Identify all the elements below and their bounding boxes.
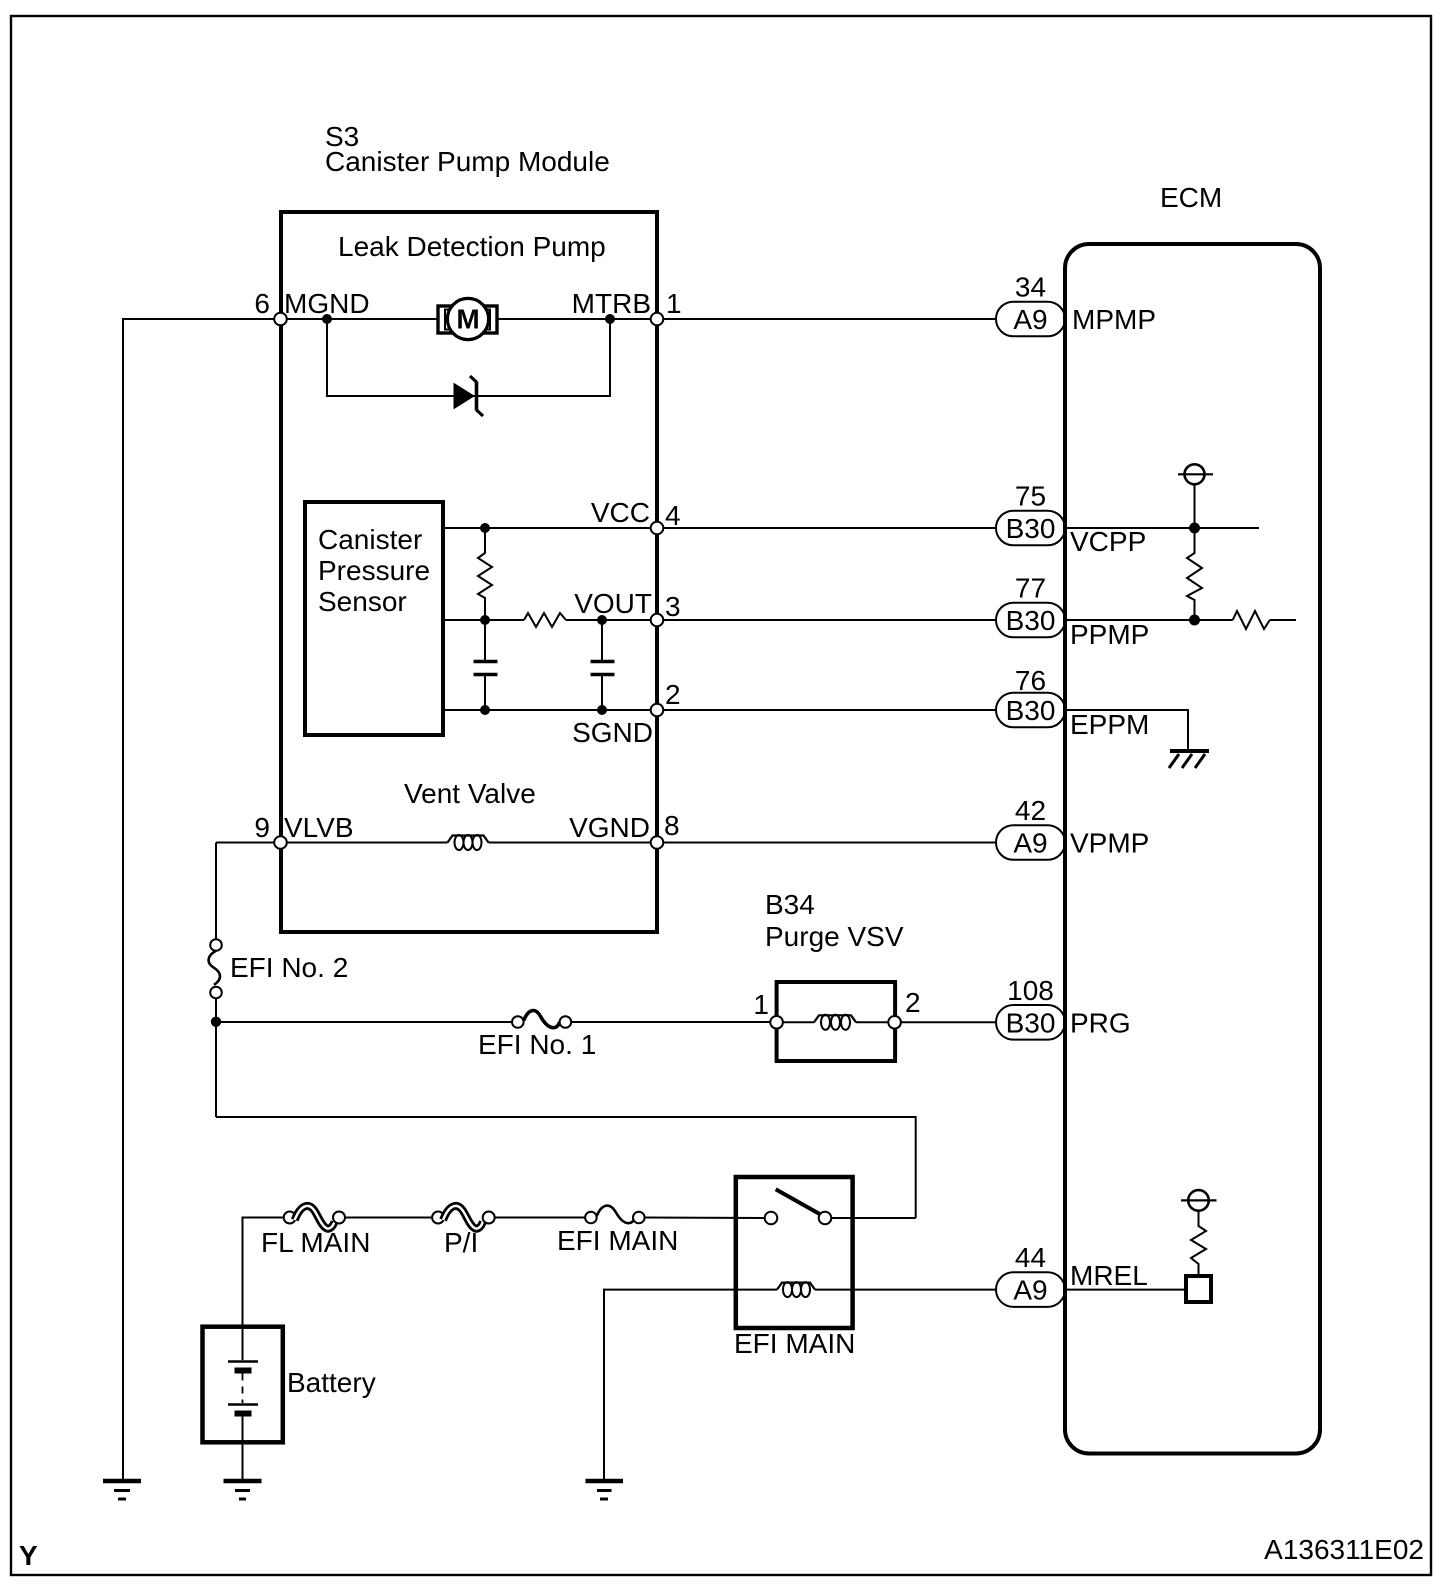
svg-text:34: 34 (1015, 272, 1046, 303)
wire battery to FL MAIN (243, 1218, 284, 1327)
svg-text:MTRB: MTRB (572, 288, 651, 319)
inductor L2 purge VSV coil (782, 1015, 889, 1030)
connector 77 B30 PPMP (996, 573, 1149, 651)
svg-text:P/I: P/I (444, 1227, 478, 1258)
wire EFI No.1 branch (216, 1021, 512, 1023)
svg-text:2: 2 (905, 987, 921, 1018)
svg-text:MPMP: MPMP (1072, 304, 1156, 335)
fusible link FL MAIN (261, 1206, 370, 1258)
connector 34 A9 MPMP (996, 272, 1156, 337)
wire VGND to ECM VPMP (489, 842, 997, 844)
ground (battery) (224, 1481, 262, 1499)
node junction MGND (322, 314, 332, 324)
pin 2 purge VSV (888, 987, 920, 1029)
node junction VCPP (1189, 523, 1200, 534)
wire SGND to ECM EPPM (443, 709, 996, 711)
node junction EFI No.2 (211, 1017, 221, 1027)
svg-text:VLVB: VLVB (284, 812, 354, 843)
svg-text:PRG: PRG (1070, 1007, 1131, 1038)
resistor R3 ECM pull-up (1187, 528, 1202, 620)
svg-text:Vent Valve: Vent Valve (404, 778, 536, 809)
wire EPPM internal (1067, 710, 1188, 750)
svg-text:Canister: Canister (318, 524, 422, 555)
pin 9 VLVB (254, 812, 353, 849)
svg-text:EFI No. 1: EFI No. 1 (478, 1029, 596, 1060)
wire VOUT (443, 619, 524, 621)
connector 75 B30 VCPP (996, 481, 1146, 558)
wire MGND to left ground rail (123, 319, 438, 1481)
wire EFI MAIN fuse to relay (645, 1217, 765, 1220)
svg-text:Purge VSV: Purge VSV (765, 921, 904, 952)
svg-text:Pressure: Pressure (318, 555, 430, 586)
svg-text:B34: B34 (765, 889, 815, 920)
wire P/I to EFI MAIN fuse (495, 1217, 585, 1219)
svg-text:ECM: ECM (1160, 182, 1222, 213)
fusible link P/I (432, 1206, 495, 1258)
diode D1 zener across motor (454, 376, 483, 416)
wire FL MAIN to P/I (345, 1217, 432, 1219)
purge VSV B34 box (777, 982, 896, 1061)
connector 108 B30 PRG (996, 975, 1131, 1040)
fuse EFI MAIN (557, 1206, 678, 1256)
wire relay coil to ECM MREL (815, 1289, 996, 1291)
svg-text:6: 6 (254, 288, 270, 319)
label S3 Canister Pump Module (325, 121, 610, 177)
wire VCC to ECM VCPP (443, 527, 996, 529)
svg-text:3: 3 (665, 591, 681, 622)
label Canister Pressure Sensor (318, 524, 430, 617)
svg-text:VCPP: VCPP (1070, 526, 1146, 557)
wire PPMP stub (1270, 619, 1296, 621)
power symbol B+ (VCPP) (1178, 464, 1213, 528)
svg-text:EFI MAIN: EFI MAIN (557, 1225, 678, 1256)
node junction VOUT left (480, 615, 490, 625)
svg-text:A9: A9 (1013, 304, 1047, 335)
wire battery to ground (242, 1416, 244, 1479)
svg-text:VOUT: VOUT (574, 588, 652, 619)
svg-text:Leak Detection Pump: Leak Detection Pump (338, 231, 606, 262)
svg-text:SGND: SGND (572, 717, 653, 748)
resistor R2 VOUT series (524, 613, 566, 627)
wire VOUT to ECM PPMP (566, 619, 996, 621)
svg-text:1: 1 (666, 288, 682, 319)
svg-text:VCC: VCC (591, 497, 650, 528)
svg-text:B30: B30 (1006, 1007, 1056, 1038)
svg-text:PPMP: PPMP (1070, 619, 1149, 650)
node junction PPMP (1189, 615, 1200, 626)
svg-text:Battery: Battery (287, 1367, 376, 1398)
svg-text:44: 44 (1015, 1242, 1046, 1273)
ignition switch contact square (MREL) (1186, 1276, 1211, 1302)
svg-text:M: M (456, 304, 479, 335)
wire EFI No.2 to junction (215, 998, 217, 1117)
wire relay switch to feed (831, 1217, 915, 1219)
fuse EFI No. 2 (209, 939, 349, 998)
svg-text:A9: A9 (1013, 1275, 1047, 1306)
node junction VOUT right (597, 615, 607, 625)
wire relay feed from EFI No.2 (216, 1117, 916, 1218)
capacitor C1 (474, 620, 498, 710)
svg-text:MGND: MGND (284, 288, 370, 319)
wire diode loop (327, 319, 610, 396)
svg-text:75: 75 (1015, 481, 1046, 512)
label B34 Purge VSV (765, 889, 904, 952)
wire VLVB (216, 842, 448, 844)
relay EFI MAIN box (736, 1177, 853, 1328)
svg-text:A9: A9 (1013, 828, 1047, 859)
svg-text:B30: B30 (1006, 605, 1056, 636)
motor M leak detection pump (438, 298, 497, 339)
relay switch contacts (765, 1189, 832, 1224)
inductor L3 relay coil (777, 1282, 815, 1297)
pin 1 purge VSV (753, 989, 782, 1029)
svg-text:42: 42 (1015, 795, 1046, 826)
pin 6 MGND (254, 288, 369, 325)
wire fuse to purge VSV (571, 1021, 770, 1023)
svg-text:Y: Y (19, 1540, 38, 1571)
pin 1 MTRB (572, 288, 682, 325)
svg-text:108: 108 (1007, 975, 1054, 1006)
fuse EFI No. 1 (478, 1011, 596, 1060)
node junction SGND left (480, 705, 490, 715)
wire MTRB from motor to ECM (497, 318, 996, 320)
svg-text:9: 9 (254, 812, 270, 843)
pin 2 SGND (572, 679, 680, 748)
connector 44 A9 MREL (996, 1242, 1148, 1307)
svg-text:77: 77 (1015, 573, 1046, 604)
inductor L1 vent valve coil (448, 835, 489, 850)
wire relay coil left to ground (604, 1290, 777, 1479)
chassis ground (EPPM) (1169, 751, 1209, 768)
connector 76 B30 EPPM (996, 665, 1149, 740)
wire VLVB feed down (215, 843, 217, 940)
resistor R5 MREL pull-up (1191, 1211, 1206, 1277)
canister pump module S3 box (281, 212, 657, 932)
pin 4 VCC (591, 497, 681, 534)
pin 8 VGND (569, 810, 679, 849)
svg-text:4: 4 (665, 500, 681, 531)
resistor R1 sensor pull-up (478, 528, 492, 620)
node junction SGND right (597, 705, 607, 715)
resistor R4 PPMP series (1233, 611, 1270, 629)
power symbol B+ (MREL) (1181, 1190, 1217, 1211)
node junction VCC (480, 523, 490, 533)
connector 42 A9 VPMP (996, 795, 1149, 860)
svg-text:1: 1 (753, 989, 769, 1020)
svg-text:MREL: MREL (1070, 1260, 1148, 1291)
svg-text:76: 76 (1015, 665, 1046, 696)
node junction MTRB (605, 314, 615, 324)
svg-text:8: 8 (664, 810, 680, 841)
battery B1 box (203, 1327, 283, 1443)
svg-text:Sensor: Sensor (318, 586, 407, 617)
svg-text:B30: B30 (1006, 695, 1056, 726)
ECM box (1065, 244, 1320, 1454)
wire VCPP internal (1067, 527, 1259, 529)
svg-text:VGND: VGND (569, 812, 650, 843)
svg-text:VPMP: VPMP (1070, 828, 1149, 859)
svg-text:FL MAIN: FL MAIN (261, 1227, 370, 1258)
wire MREL internal (1067, 1289, 1186, 1291)
pin 3 VOUT (574, 588, 680, 626)
battery B1 cells (228, 1327, 258, 1414)
ground (relay coil) (586, 1481, 624, 1499)
svg-text:2: 2 (665, 679, 681, 710)
svg-text:B30: B30 (1006, 513, 1056, 544)
ground (left rail) (103, 1481, 141, 1499)
capacitor C2 (591, 620, 615, 710)
wire VSV to ECM PRG (901, 1021, 996, 1023)
svg-text:EFI MAIN: EFI MAIN (734, 1328, 855, 1359)
svg-text:EFI No. 2: EFI No. 2 (230, 952, 348, 983)
svg-text:EPPM: EPPM (1070, 709, 1149, 740)
svg-text:Canister Pump Module: Canister Pump Module (325, 146, 610, 177)
wire PPMP internal (1067, 619, 1233, 621)
svg-text:A136311E02: A136311E02 (1264, 1534, 1424, 1565)
canister pressure sensor box (305, 502, 443, 735)
